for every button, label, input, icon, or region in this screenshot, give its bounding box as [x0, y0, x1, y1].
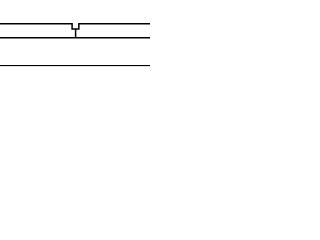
wire bus 1 (top horizontal line with jog/notch): [0, 24, 150, 29]
wire bus 3 (bottom horizontal line): [0, 65, 150, 67]
wire tap (vertical wire from notch bottom to bus 2): [75, 29, 77, 38]
wire bus 2 (middle horizontal line): [0, 37, 150, 39]
